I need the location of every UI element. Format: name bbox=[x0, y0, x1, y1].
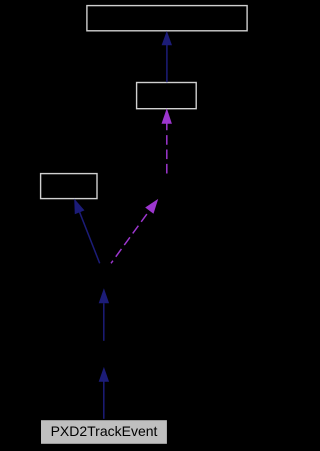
wire: inheritance arrow middle box to top box (solid midnightblue) bbox=[162, 31, 172, 82]
wire: inheritance arrow PXD2TrackEvent to hidden node1 (solid midnightblue) bbox=[99, 367, 109, 419]
node box: top class (label transparent) bbox=[87, 6, 247, 31]
node box: middle class (label transparent) bbox=[137, 83, 197, 109]
node box: PXD2TrackEvent (current class, grey fill) bbox=[41, 420, 167, 444]
svg-text:PXD2TrackEvent: PXD2TrackEvent bbox=[51, 423, 158, 439]
wire: usage arrow hidden node2 to hidden node3 (dashed darkorchid diagonal) bbox=[111, 199, 158, 263]
wire: usage arrow hidden node3 to middle box (dashed darkorchid) bbox=[162, 108, 172, 173]
wire: inheritance arrow hidden node1 to hidden node2 (solid midnightblue) bbox=[99, 288, 109, 341]
wire: inheritance arrow hidden node2 to left box (solid midnightblue diagonal) bbox=[74, 199, 100, 264]
node box: left class (label transparent) bbox=[41, 174, 97, 199]
